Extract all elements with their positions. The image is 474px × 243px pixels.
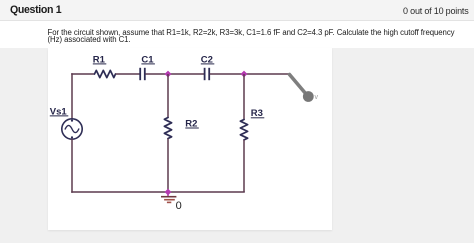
wire C1 to C2 [145, 73, 204, 75]
points label [403, 6, 468, 16]
capacitor C1 [140, 68, 145, 80]
resistor R3 [240, 120, 247, 140]
probe label v [315, 94, 319, 101]
white schematic canvas [48, 48, 332, 230]
node junction at ground [165, 189, 172, 196]
probe stick [290, 75, 307, 95]
label Vs1 [50, 106, 69, 117]
ground label 0 [176, 200, 182, 212]
wire R3 branch lower [243, 140, 245, 192]
svg-text:v: v [315, 94, 319, 101]
question body text [48, 29, 474, 44]
source Vs1 [62, 119, 82, 139]
wire top-left horizontal [71, 73, 95, 75]
header bar [0, 0, 474, 21]
label C1 [141, 54, 155, 65]
label R2 [185, 118, 199, 129]
label C2 [201, 54, 215, 65]
resistor R1 [95, 70, 116, 77]
capacitor C2 [205, 68, 210, 80]
label R1 [93, 54, 107, 65]
wire C2 to probe bend [210, 73, 289, 75]
node junction after C2 [241, 71, 248, 78]
node junction after C1 [165, 71, 172, 78]
question title [10, 4, 61, 16]
wire left vertical upper [71, 73, 73, 119]
svg-text:0: 0 [176, 200, 182, 212]
wire R2 branch lower [167, 139, 169, 193]
wire left vertical lower [71, 139, 73, 193]
probe tip circle [303, 91, 314, 102]
wire R2 branch upper [167, 74, 169, 118]
resistor R2 [164, 118, 171, 139]
label R3 [251, 108, 264, 119]
wire R1 to C1 [116, 73, 140, 75]
ground [161, 197, 176, 203]
wire bottom horizontal [71, 191, 245, 193]
wire R3 branch upper [243, 74, 245, 120]
